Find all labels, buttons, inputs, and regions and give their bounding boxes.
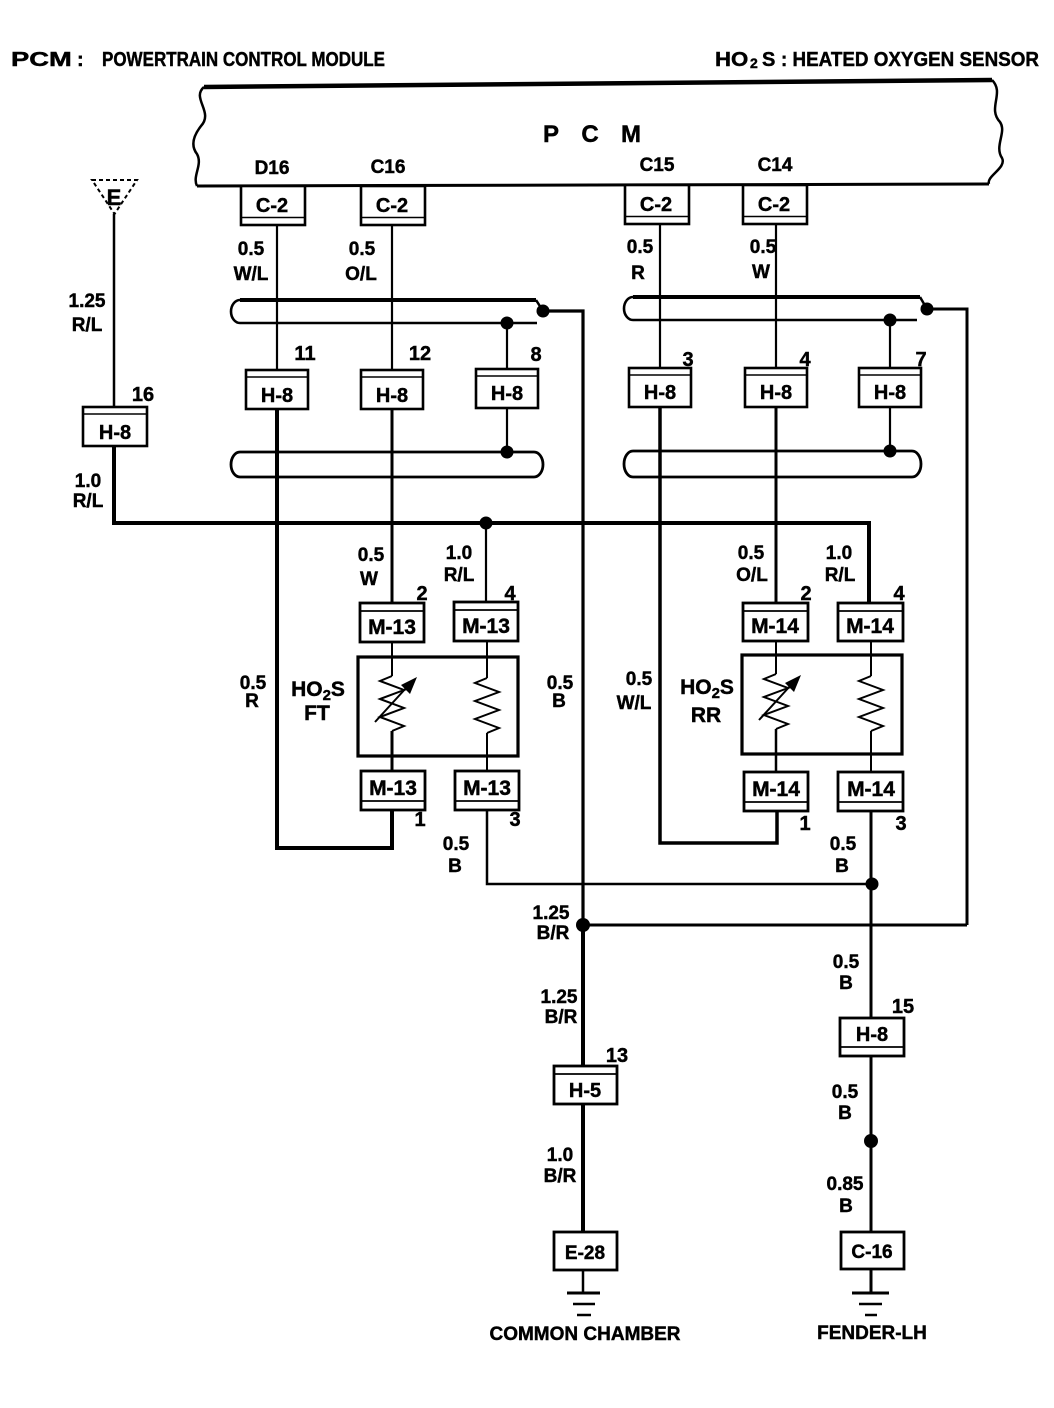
svg-text:4: 4 (504, 583, 516, 605)
svg-text:H-8: H-8 (491, 383, 523, 405)
svg-text:W/L: W/L (234, 264, 269, 285)
wire label 1.0 R/L (above M-14 pin 4) (825, 543, 856, 586)
connector C-2 at C15 (625, 185, 689, 224)
svg-text:0.5: 0.5 (443, 834, 470, 855)
svg-text:C16: C16 (371, 157, 406, 178)
svg-text:O/L: O/L (736, 565, 768, 586)
svg-text:FT: FT (304, 702, 330, 725)
wire bus branch to M-13 pin 4 (485, 523, 487, 606)
svg-text:HO2S: HO2S (680, 676, 734, 702)
wire label 0.5 B (right of FT) (547, 673, 574, 712)
wire label 0.5 R (left of FT) (240, 673, 267, 712)
svg-text:R/L: R/L (73, 491, 104, 512)
HO2S RR sensor box (742, 655, 902, 754)
svg-text:H-8: H-8 (760, 382, 792, 404)
svg-text:1: 1 (414, 809, 425, 831)
svg-text:M-13: M-13 (369, 777, 417, 800)
wire H-8 #11 down to loop and M-13 pin 1 (277, 405, 392, 848)
svg-text:1.0: 1.0 (75, 471, 101, 492)
connector H-8 #15 (840, 996, 914, 1056)
svg-text:8: 8 (530, 344, 541, 366)
wire label 1.25 B/R (at junction) (533, 903, 570, 944)
svg-text:15: 15 (892, 996, 914, 1018)
wire C16 down to H-8 #12 (391, 225, 393, 372)
svg-text:1: 1 (799, 813, 810, 835)
wire label 0.5 W (above M-13 pin 2) (358, 545, 385, 590)
wire label 0.5 W (C14) (750, 237, 777, 283)
wire label 0.5 B (below M-14 pin 3) (830, 834, 857, 877)
svg-text:M: M (621, 121, 641, 148)
wire H-8 #8 bottom to lower shield oval (506, 405, 508, 452)
svg-text:C14: C14 (758, 155, 793, 176)
connector C-2 at D16 (241, 186, 305, 225)
svg-text:H-5: H-5 (569, 1080, 601, 1102)
connector H-8 #12 (361, 343, 431, 409)
svg-text:R: R (245, 691, 259, 712)
svg-text:M-13: M-13 (462, 615, 510, 638)
svg-text:C15: C15 (640, 155, 675, 176)
connector M-13 pin 4 (454, 583, 518, 641)
sensing element resistor FT (475, 641, 499, 772)
svg-text:13: 13 (606, 1045, 628, 1067)
svg-text:12: 12 (409, 343, 431, 365)
svg-text:2: 2 (800, 583, 811, 605)
wire label 1.0 B/R (544, 1145, 577, 1187)
wire shield drain left (to B/R junction) (543, 311, 583, 925)
svg-text:1.25: 1.25 (69, 291, 106, 312)
wire 1.0 R/L bus: H-8 #16 down, across to M-14 pin 4 (114, 409, 869, 606)
junction dot B/R at x=583 (576, 918, 590, 932)
svg-text:FENDER-LH: FENDER-LH (817, 1323, 927, 1344)
svg-text:1.25: 1.25 (541, 987, 578, 1008)
svg-text:POWERTRAIN CONTROL MODULE: POWERTRAIN CONTROL MODULE (102, 49, 385, 71)
svg-text:S: S (762, 49, 775, 71)
svg-text:HO: HO (715, 49, 748, 71)
svg-text:7: 7 (915, 349, 926, 371)
wire H-5 down to E-28 (581, 1104, 585, 1232)
svg-text:D16: D16 (255, 158, 290, 179)
connector M-14 pin 1 (744, 772, 811, 835)
wire M-14 pin 3 down to H-8 #15 (870, 808, 873, 1018)
svg-text:2: 2 (416, 583, 427, 605)
svg-text:3: 3 (895, 813, 906, 835)
wire H-8 #15 down to C-16 (870, 1056, 873, 1232)
wire B/R down to H-5 (581, 925, 585, 1066)
svg-text:0.5: 0.5 (830, 834, 857, 855)
connector M-14 pin 3 (838, 772, 907, 835)
svg-text:B: B (448, 856, 462, 877)
junction dot lower shield right (884, 445, 897, 458)
svg-text:COMMON CHAMBER: COMMON CHAMBER (489, 1324, 680, 1345)
connector C-2 at C16 (361, 186, 425, 225)
junction dot shield drain left (537, 305, 550, 318)
wire label 1.0 R/L (below H-8 #16) (73, 471, 104, 512)
wire label 1.25 B/R (above H-5) (541, 987, 578, 1028)
svg-text:H-8: H-8 (99, 422, 131, 444)
svg-text:3: 3 (509, 809, 520, 831)
connector M-14 pin 4 (838, 583, 905, 641)
wire label 0.5 O/L (above M-14 pin 2) (736, 543, 768, 586)
heater element (variable resistor) RR (759, 641, 801, 774)
svg-text:M-14: M-14 (752, 778, 800, 801)
wire label 0.5 B (above H-8 #15) (833, 952, 860, 994)
svg-text:4: 4 (893, 583, 905, 605)
svg-text:2: 2 (750, 55, 758, 71)
svg-text:H-8: H-8 (644, 382, 676, 404)
svg-text:R/L: R/L (825, 565, 856, 586)
svg-text:B/R: B/R (545, 1007, 578, 1028)
shield oval lower left (231, 452, 543, 477)
svg-text:C: C (581, 121, 598, 148)
svg-text:M-14: M-14 (751, 615, 799, 638)
svg-text:B/R: B/R (544, 1166, 577, 1187)
wire C14 down to H-8 #4 (775, 225, 777, 370)
wire H-8 #3 down to loop and M-14 pin 1 (660, 405, 777, 843)
connector H-8 #7 (859, 349, 927, 407)
svg-text:C-2: C-2 (758, 194, 790, 216)
connector H-8 #16 (83, 384, 154, 446)
svg-text:0.5: 0.5 (750, 237, 777, 258)
title: HO2S definition (715, 49, 1040, 71)
shield oval upper left (231, 300, 543, 323)
svg-text:: HEATED OXYGEN SENSOR: : HEATED OXYGEN SENSOR (781, 49, 1040, 71)
wire C15 down to H-8 #3 (659, 225, 661, 370)
svg-text:H-8: H-8 (874, 382, 906, 404)
svg-text:P: P (543, 121, 559, 148)
svg-text:C-2: C-2 (376, 195, 408, 217)
svg-text:0.5: 0.5 (627, 237, 654, 258)
svg-text:0.5: 0.5 (238, 239, 265, 260)
svg-text:RR: RR (691, 704, 721, 727)
wire label 0.5 B (below M-13 pin 3) (443, 834, 470, 877)
junction dot shield to H-8 #8 top (501, 317, 514, 330)
svg-text:3: 3 (682, 349, 693, 371)
connector H-5 #13 (554, 1045, 628, 1104)
svg-text:E: E (107, 185, 122, 210)
wire H-8 #7 bottom to lower shield oval (889, 405, 891, 452)
svg-text:1.0: 1.0 (547, 1145, 573, 1166)
wire shield drain cross bus at y=925 (583, 924, 967, 927)
svg-text:16: 16 (132, 384, 154, 406)
svg-text:W/L: W/L (617, 693, 652, 714)
svg-text:R/L: R/L (444, 565, 475, 586)
wire H-8 #4 down to M-14 pin 2 (775, 405, 778, 606)
svg-text::: : (77, 49, 84, 71)
junction dot shield to H-8 #7 top (884, 314, 897, 327)
connector M-13 pin 3 (455, 771, 521, 831)
svg-text:M-14: M-14 (846, 615, 894, 638)
shield oval lower right (624, 451, 921, 477)
svg-text:O/L: O/L (345, 264, 377, 285)
label HO2S FT (291, 678, 345, 725)
ground (fender) (852, 1269, 889, 1315)
svg-text:W: W (752, 262, 770, 283)
svg-text:B/R: B/R (537, 923, 570, 944)
wire D16 down to H-8 #11 (276, 225, 278, 372)
svg-text:E-28: E-28 (565, 1243, 605, 1264)
label P C M (543, 121, 641, 148)
HO2S FT sensor box (358, 657, 518, 756)
wire label 0.5 O/L (C16) (345, 239, 377, 285)
heater element (variable resistor) FT (375, 641, 417, 772)
connector C-2 at C14 (743, 185, 807, 224)
connector H-8 #11 (246, 343, 316, 409)
wire shield oval to H-8 #7 (889, 320, 891, 370)
wire label 0.85 B (827, 1174, 864, 1217)
svg-text:11: 11 (294, 343, 315, 365)
connector H-8 #4 (745, 349, 811, 407)
svg-text:B: B (835, 856, 849, 877)
svg-text:1.0: 1.0 (826, 543, 852, 564)
wire E down to H-8 #16 (113, 214, 116, 409)
svg-text:B: B (838, 1103, 852, 1124)
connector H-8 #8 (476, 344, 542, 408)
svg-text:M-14: M-14 (847, 778, 895, 801)
wire label 0.5 W/L (D16) (234, 239, 269, 285)
svg-text:0.5: 0.5 (832, 1082, 859, 1103)
junction dot lower shield left (501, 446, 514, 459)
svg-text:R: R (631, 263, 645, 284)
svg-text:H-8: H-8 (856, 1024, 888, 1046)
junction dot on fender ground wire (864, 1134, 878, 1148)
ground (common chamber) (567, 1270, 600, 1315)
svg-text:0.85: 0.85 (827, 1174, 864, 1195)
svg-text:M-13: M-13 (463, 777, 511, 800)
connector E-28 (554, 1232, 617, 1270)
wire label 1.25 R/L (69, 291, 106, 336)
title: PCM definition (11, 48, 385, 71)
svg-text:B: B (839, 973, 853, 994)
svg-text:W: W (360, 569, 378, 590)
wire M-13 pin 3 to ground bus 0.5 B (487, 808, 872, 884)
svg-text:1.0: 1.0 (446, 543, 472, 564)
wire label 0.5 B (below H-8 #15) (832, 1082, 859, 1124)
sensing element resistor RR (859, 641, 883, 774)
connector M-13 pin 1 (361, 771, 426, 831)
connector M-14 pin 2 (743, 583, 812, 641)
junction dot shield drain right (921, 303, 934, 316)
svg-text:0.5: 0.5 (833, 952, 860, 973)
svg-text:0.5: 0.5 (626, 669, 653, 690)
wire shield drain right (down to B/R junction bus) (927, 309, 967, 925)
svg-text:0.5: 0.5 (738, 543, 765, 564)
svg-text:B: B (552, 691, 566, 712)
connector C-16 (841, 1232, 904, 1269)
junction dot bus to M-13 pin 4 (480, 517, 493, 530)
connector M-13 pin 2 (360, 583, 428, 642)
svg-text:M-13: M-13 (368, 616, 416, 639)
wire label 0.5 W/L (left of RR) (617, 669, 653, 714)
svg-text:HO2S: HO2S (291, 678, 345, 704)
shield oval upper right (624, 297, 927, 320)
wire shield oval to H-8 #8 (506, 323, 508, 370)
connector H-8 #3 (629, 349, 694, 407)
svg-text:0.5: 0.5 (349, 239, 376, 260)
svg-text:C-16: C-16 (851, 1242, 892, 1263)
wire label 0.5 R (C15) (627, 237, 654, 284)
svg-text:R/L: R/L (72, 315, 103, 336)
svg-text:4: 4 (799, 349, 811, 371)
svg-text:B: B (839, 1196, 853, 1217)
svg-text:H-8: H-8 (376, 385, 408, 407)
PCM module body (193, 80, 1002, 186)
wire H-8 #12 down to M-13 pin 2 (391, 405, 394, 606)
junction dot ground bus at M-14 pin 3 wire (866, 878, 879, 891)
label HO2S RR (680, 676, 734, 727)
svg-text:1.25: 1.25 (533, 903, 570, 924)
svg-text:H-8: H-8 (261, 385, 293, 407)
svg-text:PCM: PCM (11, 48, 72, 71)
svg-text:0.5: 0.5 (358, 545, 385, 566)
svg-text:C-2: C-2 (640, 194, 672, 216)
svg-text:C-2: C-2 (256, 195, 288, 217)
wire label 1.0 R/L (above M-13 pin 4) (444, 543, 475, 586)
ground reference triangle E (92, 180, 137, 214)
